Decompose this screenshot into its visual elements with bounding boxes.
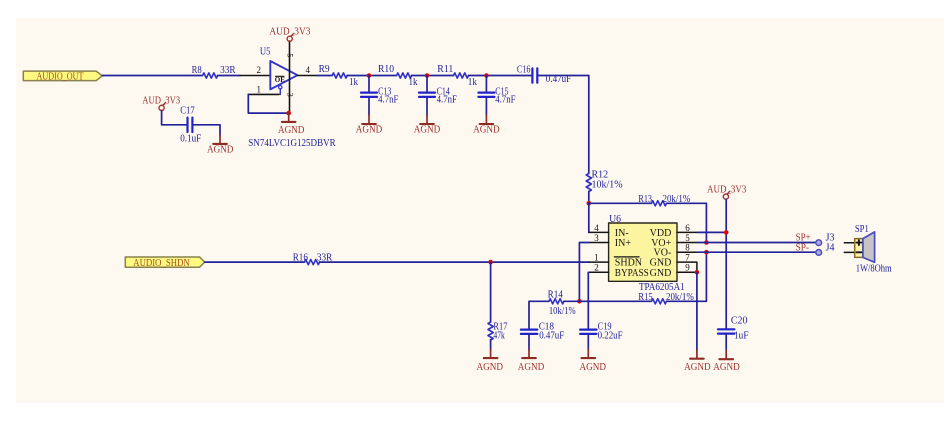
capacitor C17 (180, 106, 201, 145)
svg-text:AUDIO_OUT: AUDIO_OUT (37, 70, 84, 82)
svg-text:SN74LVC1G125DBVR: SN74LVC1G125DBVR (248, 138, 335, 149)
pin 6 VDD (677, 231, 697, 233)
node VO+ feedback junction (704, 240, 709, 245)
capacitor C15 (478, 76, 515, 116)
node GND pins junction (695, 270, 700, 275)
svg-text:R8: R8 (192, 65, 202, 76)
wire node down to U6 pin4 (588, 203, 590, 232)
svg-text:U5: U5 (260, 47, 271, 58)
wire AUD_3V3 to C17 (162, 111, 187, 125)
ground AGND (R17) (477, 350, 504, 373)
speaker SP1 (844, 224, 892, 275)
wire R8 to U5 pin2 (218, 75, 240, 77)
wire R11 to C16 (469, 75, 532, 77)
svg-text:U6: U6 (609, 214, 621, 225)
pin 2 BYPASS (589, 271, 609, 273)
svg-text:GND: GND (650, 268, 672, 279)
svg-text:J4: J4 (826, 243, 835, 254)
node R17 junction (488, 260, 493, 265)
svg-text:4: 4 (305, 65, 310, 75)
svg-text:1: 1 (256, 84, 261, 94)
IC U6 TPA6205A1 (589, 214, 697, 293)
ground AGND (C13) (356, 115, 383, 136)
wire node to R13 (589, 202, 652, 204)
port AUDIO_OUT (23, 70, 102, 82)
pin 9 GND (677, 271, 697, 273)
ground AGND (U6 GND) (684, 350, 711, 373)
wire R14 to C18 (529, 301, 549, 328)
wire R12 to node (588, 192, 590, 204)
capacitor C19 (580, 321, 623, 349)
svg-text:OE: OE (275, 76, 285, 84)
svg-text:BYPASS: BYPASS (615, 268, 649, 279)
svg-text:9: 9 (685, 263, 690, 273)
resistor R8 (192, 65, 236, 78)
svg-text:3: 3 (594, 233, 599, 243)
node VO- feedback junction (704, 250, 709, 255)
pin 3 IN+ (589, 242, 609, 244)
resistor R11 (437, 64, 477, 88)
svg-text:AUDIO_SHDN: AUDIO_SHDN (133, 257, 190, 269)
svg-text:1uF: 1uF (734, 330, 749, 341)
svg-text:6: 6 (685, 223, 690, 233)
resistor R9 (319, 64, 359, 88)
svg-text:4.7nF: 4.7nF (437, 95, 458, 106)
pin 4 IN- (589, 231, 609, 233)
node C14 junction (425, 73, 430, 78)
svg-text:1: 1 (594, 253, 599, 263)
node IN+/R14/R15 junction (577, 299, 582, 304)
svg-text:AGND: AGND (473, 124, 500, 136)
wire C16 to R12 (539, 76, 589, 174)
capacitor C14 (419, 76, 457, 116)
wire AUDIO_OUT to R8 (102, 75, 202, 77)
ground AGND (U5) (278, 113, 305, 136)
node C13 junction (367, 73, 372, 78)
node R12/R13/IN- junction (587, 201, 592, 206)
svg-text:AGND: AGND (207, 143, 234, 155)
wire R10 to node C14 (412, 75, 454, 77)
ground AGND (C19) (580, 350, 607, 373)
svg-text:C20: C20 (731, 316, 748, 327)
svg-text:AGND: AGND (414, 124, 441, 136)
wire VDD pin6 to AUD_3V3 (697, 231, 726, 233)
svg-text:1k: 1k (409, 77, 418, 88)
svg-text:5: 5 (286, 53, 295, 57)
svg-text:C17: C17 (180, 106, 195, 117)
wire R13 to VO+ (667, 203, 707, 242)
wire C17 to AGND (194, 125, 220, 135)
resistor R14 (548, 290, 576, 317)
wire R15 to VO- (667, 252, 707, 301)
svg-text:0.22uF: 0.22uF (598, 330, 623, 341)
wire U5 pin1 feedback loop (248, 94, 288, 113)
svg-text:4: 4 (594, 223, 599, 233)
svg-text:47k: 47k (493, 330, 505, 341)
power AUD_3V3 (C17) (142, 95, 180, 111)
power AUD_3V3 (U5) (269, 26, 310, 42)
svg-text:R11: R11 (437, 64, 453, 75)
pin 7 GND (677, 262, 697, 272)
svg-text:2: 2 (256, 65, 261, 75)
ground AGND (C17) (207, 135, 234, 155)
svg-text:IN+: IN+ (615, 238, 632, 249)
svg-text:R15: R15 (638, 292, 652, 303)
ground AGND (C15) (473, 115, 500, 136)
svg-text:AGND: AGND (580, 361, 607, 373)
port AUDIO_SHDN (125, 257, 204, 269)
svg-text:1W/8Ohm: 1W/8Ohm (856, 263, 892, 274)
svg-text:AGND: AGND (356, 124, 383, 136)
svg-text:AGND: AGND (518, 361, 545, 373)
svg-text:R16: R16 (293, 253, 308, 264)
capacitor C20 (718, 316, 749, 351)
wire node to R17 (490, 262, 492, 322)
resistor R12 (586, 169, 622, 191)
wire BYPASS pin2 down to C19 (587, 272, 590, 328)
svg-text:4.7nF: 4.7nF (495, 95, 516, 106)
op-amp U5 buffer SN74LVC1G125 (240, 41, 336, 149)
resistor R17 (488, 321, 507, 341)
wire R16 to U6 pin1 (320, 261, 590, 263)
svg-text:7: 7 (685, 253, 690, 263)
wire R14 to junction (564, 300, 580, 302)
wire AUD_3V3 down through VDD to C20 (725, 199, 727, 328)
svg-text:8: 8 (685, 243, 690, 253)
svg-text:AGND: AGND (713, 361, 740, 373)
resistor R13 (638, 194, 690, 206)
svg-text:2: 2 (594, 263, 599, 273)
wire U5 pin4 to R9 (317, 75, 332, 77)
resistor R16 (293, 253, 333, 265)
node C15 junction (484, 73, 489, 78)
wire AUDIO_SHDN to R16 (205, 261, 305, 263)
ground AGND (C14) (414, 115, 441, 136)
wire R9 to node C13 (347, 75, 396, 77)
svg-text:AGND: AGND (477, 361, 504, 373)
wire GND pins to AGND (696, 272, 698, 350)
svg-text:R14: R14 (548, 290, 563, 301)
svg-text:SP1: SP1 (855, 224, 869, 235)
connector J4 (816, 243, 835, 256)
svg-text:3: 3 (286, 93, 295, 97)
svg-text:0.1uF: 0.1uF (180, 134, 201, 145)
capacitor C16 (517, 64, 572, 85)
wire IN+ from pin3 down (579, 243, 589, 302)
svg-text:SP-: SP- (796, 242, 810, 254)
wire VO+ to J3 (697, 242, 815, 244)
wire VO- to J4 (697, 251, 815, 253)
node VDD junction (724, 230, 729, 235)
connector J3 (816, 233, 835, 246)
svg-text:33R: 33R (220, 65, 236, 76)
ground AGND (C18) (518, 350, 545, 373)
capacitor C13 (361, 76, 399, 116)
wire R17 to AGND (490, 340, 492, 350)
svg-text:10k/1%: 10k/1% (549, 306, 576, 317)
power AUD_3V3 (U6) (707, 184, 747, 200)
svg-text:C16: C16 (517, 64, 531, 75)
pin 5 VO+ (677, 242, 697, 244)
svg-text:R9: R9 (319, 64, 330, 75)
node U5 gnd junction (286, 111, 291, 116)
svg-text:1k: 1k (349, 77, 358, 88)
svg-text:10k/1%: 10k/1% (592, 179, 623, 190)
svg-text:R13: R13 (638, 194, 652, 205)
svg-text:5: 5 (685, 233, 690, 243)
resistor R15 (638, 292, 693, 304)
svg-text:R10: R10 (378, 64, 394, 75)
svg-text:1k: 1k (468, 77, 477, 88)
svg-text:0.47uF: 0.47uF (539, 330, 564, 341)
capacitor C18 (521, 321, 565, 349)
wire R15 row (579, 300, 651, 302)
svg-text:AGND: AGND (278, 124, 305, 136)
resistor R10 (378, 64, 418, 88)
svg-text:AGND: AGND (684, 361, 711, 373)
pin 1 SHDN (589, 261, 609, 263)
ground AGND (C20) (713, 351, 740, 373)
pin 8 VO- (677, 251, 697, 253)
svg-text:4.7nF: 4.7nF (378, 95, 399, 106)
